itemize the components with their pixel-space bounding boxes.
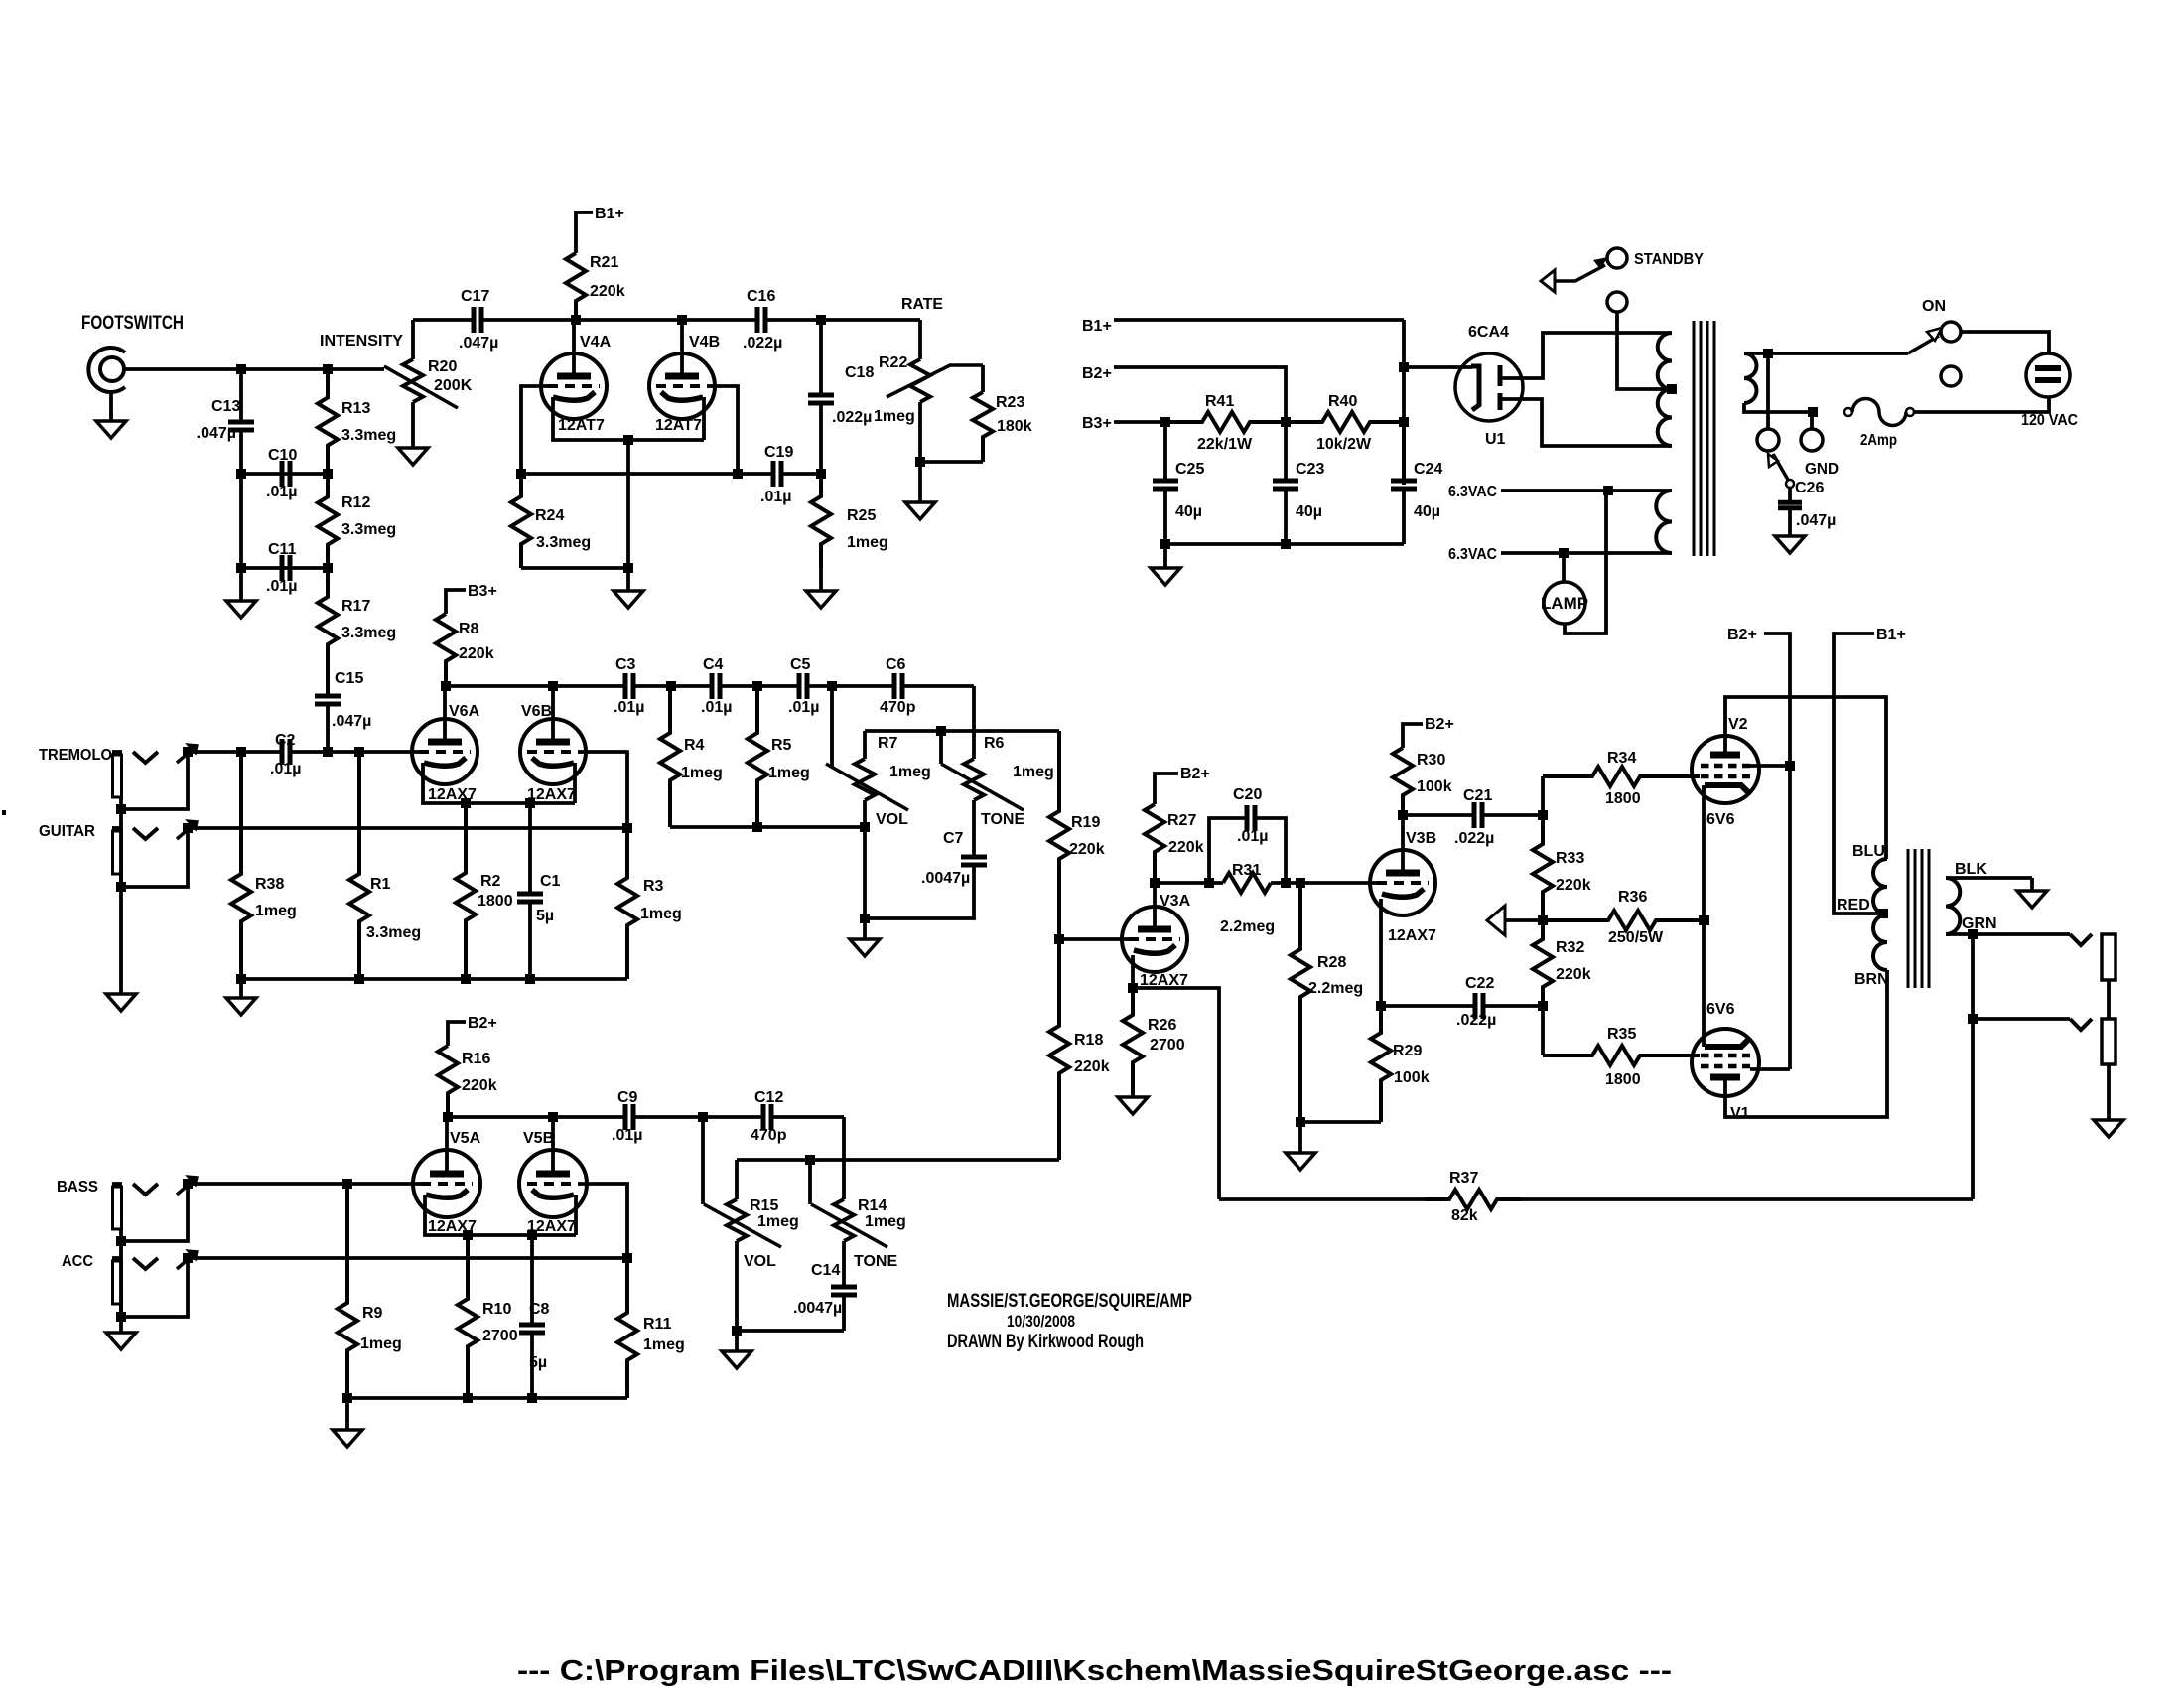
svg-text:R23: R23	[996, 394, 1024, 411]
svg-text:R34: R34	[1607, 750, 1636, 767]
svg-text:3.3meg: 3.3meg	[341, 521, 396, 538]
svg-text:V4A: V4A	[580, 334, 612, 351]
svg-text:R25: R25	[847, 507, 876, 524]
svg-text:C21: C21	[1463, 787, 1492, 804]
svg-text:1meg: 1meg	[874, 408, 915, 425]
svg-text:220k: 220k	[590, 283, 625, 300]
svg-text:BLU: BLU	[1852, 843, 1885, 860]
svg-text:B2+: B2+	[1082, 365, 1112, 382]
svg-text:C10: C10	[268, 447, 297, 464]
svg-text:470p: 470p	[751, 1127, 787, 1144]
svg-text:C2: C2	[275, 732, 296, 749]
svg-text:220k: 220k	[1168, 839, 1204, 856]
svg-text:.01µ: .01µ	[266, 578, 297, 595]
svg-text:R6: R6	[984, 735, 1005, 752]
svg-text:C9: C9	[617, 1089, 638, 1106]
svg-text:R22: R22	[879, 354, 907, 371]
svg-text:3.3meg: 3.3meg	[341, 427, 396, 444]
svg-text:R32: R32	[1556, 939, 1584, 956]
svg-text:C26: C26	[1795, 480, 1824, 496]
svg-text:22k/1W: 22k/1W	[1197, 436, 1253, 453]
svg-text:V4B: V4B	[689, 334, 720, 351]
svg-text:R9: R9	[362, 1305, 383, 1322]
svg-text:1meg: 1meg	[865, 1213, 906, 1230]
svg-text:R29: R29	[1393, 1043, 1422, 1059]
svg-text:C11: C11	[268, 541, 297, 558]
svg-text:V6A: V6A	[449, 703, 480, 720]
svg-text:40µ: 40µ	[1414, 503, 1440, 520]
svg-text:6.3VAC: 6.3VAC	[1448, 546, 1497, 563]
svg-text:GND: GND	[1805, 461, 1839, 478]
svg-text:V5B: V5B	[523, 1130, 554, 1147]
svg-text:12AT7: 12AT7	[655, 417, 702, 434]
svg-text:B1+: B1+	[595, 206, 624, 222]
svg-text:R36: R36	[1618, 889, 1647, 906]
svg-text:R41: R41	[1205, 393, 1234, 410]
svg-text:.047µ: .047µ	[197, 425, 236, 442]
svg-text:200K: 200K	[434, 377, 473, 394]
svg-text:.01µ: .01µ	[760, 489, 791, 505]
svg-text:40µ: 40µ	[1175, 503, 1202, 520]
svg-text:6CA4: 6CA4	[1468, 324, 1509, 341]
svg-text:R1: R1	[370, 876, 391, 893]
svg-text:220k: 220k	[1074, 1058, 1110, 1075]
svg-text:R4: R4	[684, 737, 705, 754]
svg-text:1meg: 1meg	[360, 1336, 402, 1352]
svg-text:C3: C3	[615, 656, 636, 673]
svg-text:R14: R14	[858, 1197, 887, 1214]
svg-text:1meg: 1meg	[643, 1336, 685, 1353]
svg-text:R28: R28	[1317, 954, 1346, 971]
svg-text:R12: R12	[341, 494, 370, 511]
svg-text:V3A: V3A	[1160, 893, 1191, 910]
svg-text:TONE: TONE	[854, 1253, 897, 1270]
svg-text:RATE: RATE	[901, 296, 943, 313]
svg-text:R15: R15	[750, 1197, 778, 1214]
svg-text:R17: R17	[341, 598, 370, 615]
svg-text:.022µ: .022µ	[1454, 830, 1494, 847]
svg-text:V6B: V6B	[521, 703, 552, 720]
svg-text:C15: C15	[335, 670, 363, 687]
svg-text:6.3VAC: 6.3VAC	[1448, 484, 1497, 500]
svg-text:TREMOLO: TREMOLO	[39, 747, 112, 764]
svg-text:C17: C17	[461, 288, 489, 305]
svg-text:1meg: 1meg	[640, 906, 682, 922]
svg-text:1800: 1800	[478, 893, 513, 910]
svg-text:.047µ: .047µ	[332, 713, 371, 730]
svg-text:5µ: 5µ	[529, 1354, 547, 1371]
svg-text:1meg: 1meg	[1013, 764, 1054, 780]
svg-text:RED: RED	[1837, 897, 1870, 914]
svg-text:R26: R26	[1148, 1017, 1176, 1034]
svg-text:R13: R13	[341, 400, 370, 417]
svg-text:.0047µ: .0047µ	[793, 1300, 842, 1317]
svg-text:R11: R11	[643, 1316, 672, 1333]
svg-text:LAMP: LAMP	[1541, 594, 1588, 613]
svg-text:R8: R8	[459, 621, 479, 637]
svg-text:STANDBY: STANDBY	[1634, 251, 1704, 268]
svg-text:C12: C12	[754, 1089, 783, 1106]
svg-text:.047µ: .047µ	[1796, 512, 1836, 529]
svg-text:.01µ: .01µ	[270, 761, 301, 777]
svg-text:220k: 220k	[1556, 966, 1591, 983]
svg-text:C4: C4	[703, 656, 724, 673]
svg-text:B2+: B2+	[1180, 766, 1210, 782]
svg-text:R40: R40	[1328, 393, 1357, 410]
svg-text:250/5W: 250/5W	[1608, 929, 1664, 946]
svg-text:12AT7: 12AT7	[558, 417, 605, 434]
svg-text:3.3meg: 3.3meg	[341, 625, 396, 641]
svg-text:R24: R24	[535, 507, 564, 524]
svg-text:ACC: ACC	[62, 1253, 93, 1270]
svg-text:R19: R19	[1071, 814, 1100, 831]
svg-text:.01µ: .01µ	[1237, 828, 1268, 845]
svg-text:12AX7: 12AX7	[1388, 927, 1436, 944]
svg-text:.01µ: .01µ	[614, 699, 644, 716]
svg-text:B2+: B2+	[1425, 716, 1454, 733]
svg-text:R35: R35	[1607, 1026, 1636, 1043]
svg-text:.01µ: .01µ	[612, 1127, 642, 1144]
svg-text:100k: 100k	[1417, 778, 1452, 795]
svg-text:.01µ: .01µ	[266, 484, 297, 500]
svg-text:R37: R37	[1449, 1170, 1478, 1187]
svg-text:2700: 2700	[482, 1328, 518, 1344]
svg-text:6V6: 6V6	[1706, 811, 1735, 828]
svg-text:5µ: 5µ	[536, 908, 554, 924]
svg-text:INTENSITY: INTENSITY	[320, 333, 403, 350]
svg-text:R16: R16	[462, 1051, 490, 1067]
svg-text:6V6: 6V6	[1706, 1001, 1735, 1018]
svg-text:3.3meg: 3.3meg	[536, 534, 591, 551]
svg-text:VOL: VOL	[876, 811, 908, 828]
svg-text:.0047µ: .0047µ	[921, 870, 970, 887]
svg-text:C8: C8	[529, 1301, 550, 1318]
svg-text:C16: C16	[747, 288, 775, 305]
svg-text:10/30/2008: 10/30/2008	[1007, 1312, 1075, 1331]
svg-text:C13: C13	[211, 398, 240, 415]
svg-text:B1+: B1+	[1876, 627, 1906, 643]
svg-text:1meg: 1meg	[681, 765, 723, 781]
svg-text:ON: ON	[1922, 298, 1946, 315]
svg-text:1meg: 1meg	[889, 764, 931, 780]
svg-text:GUITAR: GUITAR	[39, 823, 95, 840]
svg-text:C25: C25	[1175, 461, 1204, 478]
svg-text:180k: 180k	[997, 418, 1032, 435]
svg-text:V2: V2	[1728, 716, 1748, 733]
svg-text:R10: R10	[482, 1301, 511, 1318]
svg-text:.022µ: .022µ	[1456, 1012, 1496, 1029]
svg-text:R38: R38	[255, 876, 284, 893]
svg-text:GRN: GRN	[1962, 915, 1997, 932]
svg-text:220k: 220k	[459, 645, 494, 662]
svg-text:R31: R31	[1232, 862, 1261, 879]
svg-text:2Amp: 2Amp	[1860, 432, 1897, 449]
svg-text:C20: C20	[1233, 786, 1262, 803]
svg-text:V3B: V3B	[1406, 830, 1436, 847]
svg-text:1800: 1800	[1605, 790, 1641, 807]
svg-text:220k: 220k	[1556, 877, 1591, 894]
svg-text:DRAWN By Kirkwood Rough: DRAWN By Kirkwood Rough	[947, 1332, 1144, 1352]
svg-text:TONE: TONE	[981, 811, 1024, 828]
svg-text:B2+: B2+	[468, 1015, 497, 1032]
svg-text:BASS: BASS	[57, 1179, 98, 1196]
svg-text:.01µ: .01µ	[701, 699, 732, 716]
svg-text:R20: R20	[428, 358, 457, 375]
svg-text:B1+: B1+	[1082, 318, 1112, 335]
svg-text:BLK: BLK	[1955, 861, 1987, 878]
svg-text:1800: 1800	[1605, 1071, 1641, 1088]
svg-text:--- C:\Program Files\LTC\SwCA: --- C:\Program Files\LTC\SwCADIII\Kschem…	[517, 1655, 1672, 1687]
svg-text:C5: C5	[790, 656, 811, 673]
svg-text:R21: R21	[590, 254, 618, 271]
svg-text:2700: 2700	[1150, 1037, 1185, 1054]
svg-text:C22: C22	[1465, 975, 1494, 992]
svg-text:C18: C18	[845, 364, 874, 381]
svg-text:220k: 220k	[462, 1077, 497, 1094]
svg-text:R18: R18	[1074, 1032, 1103, 1049]
svg-text:.022µ: .022µ	[743, 335, 782, 352]
svg-text:C14: C14	[811, 1262, 840, 1279]
svg-text:BRN: BRN	[1854, 971, 1889, 988]
svg-text:C24: C24	[1414, 461, 1442, 478]
svg-text:V5A: V5A	[450, 1130, 481, 1147]
svg-text:120 VAC: 120 VAC	[2021, 412, 2078, 429]
svg-text:82k: 82k	[1451, 1207, 1478, 1224]
svg-text:220k: 220k	[1069, 841, 1105, 858]
svg-text:100k: 100k	[1394, 1069, 1430, 1086]
svg-text:R3: R3	[643, 878, 664, 895]
svg-text:R7: R7	[878, 735, 898, 752]
svg-text:C23: C23	[1296, 461, 1324, 478]
svg-text:470p: 470p	[880, 699, 916, 716]
svg-text:B3+: B3+	[468, 583, 497, 600]
svg-text:B2+: B2+	[1727, 627, 1757, 643]
svg-text:1meg: 1meg	[255, 903, 297, 919]
svg-text:R2: R2	[480, 873, 501, 890]
svg-text:R27: R27	[1167, 812, 1196, 829]
svg-text:1meg: 1meg	[847, 534, 888, 551]
svg-text:10k/2W: 10k/2W	[1316, 436, 1372, 453]
svg-text:2.2meg: 2.2meg	[1308, 980, 1363, 997]
svg-text:.022µ: .022µ	[832, 409, 872, 426]
svg-text:40µ: 40µ	[1296, 503, 1322, 520]
svg-text:V1: V1	[1730, 1105, 1750, 1122]
svg-text:B3+: B3+	[1082, 415, 1112, 432]
svg-text:R33: R33	[1556, 850, 1584, 867]
svg-text:1meg: 1meg	[768, 765, 810, 781]
svg-text:C6: C6	[886, 656, 906, 673]
svg-text:VOL: VOL	[744, 1253, 776, 1270]
svg-text:3.3meg: 3.3meg	[366, 924, 421, 941]
svg-text:C1: C1	[540, 873, 561, 890]
svg-text:R5: R5	[771, 737, 792, 754]
svg-text:.01µ: .01µ	[788, 699, 819, 716]
svg-text:C19: C19	[764, 444, 793, 461]
svg-text:U1: U1	[1485, 431, 1506, 448]
svg-text:.047µ: .047µ	[459, 335, 498, 352]
svg-text:1meg: 1meg	[757, 1213, 799, 1230]
svg-text:R30: R30	[1417, 752, 1445, 769]
svg-text:C7: C7	[943, 830, 964, 847]
svg-text:2.2meg: 2.2meg	[1220, 918, 1275, 935]
svg-text:FOOTSWITCH: FOOTSWITCH	[81, 313, 184, 334]
svg-text:MASSIE/ST.GEORGE/SQUIRE/AMP: MASSIE/ST.GEORGE/SQUIRE/AMP	[947, 1291, 1192, 1312]
